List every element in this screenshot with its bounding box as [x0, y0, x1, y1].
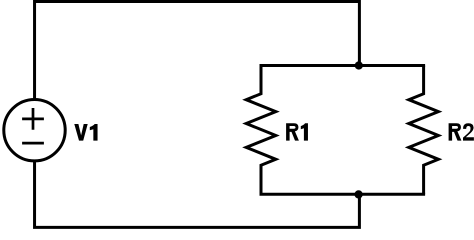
- node B junction dot: [354, 190, 362, 198]
- node A junction dot: [355, 61, 363, 69]
- resistor R1: [246, 66, 276, 195]
- wire: bottom rail (node B): [261, 193, 424, 196]
- voltage source V1: [4, 100, 65, 161]
- resistor R2: [409, 66, 439, 195]
- label R1: [286, 123, 308, 140]
- label V1: [74, 124, 97, 141]
- wire: top loop from V1 top terminal to node A: [35, 2, 360, 100]
- label R2: [449, 123, 474, 140]
- wire: top rail (node A): [261, 64, 424, 67]
- wire: bottom loop from V1 bottom terminal to node B: [35, 161, 360, 227]
